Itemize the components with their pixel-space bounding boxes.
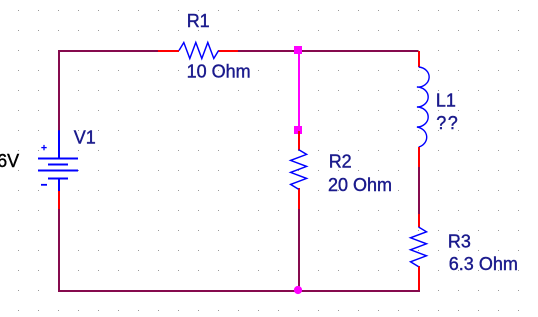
wire: [58, 50, 159, 52]
wire: [58, 50, 60, 131]
svg-text:L1: L1: [436, 90, 456, 110]
battery V1: [38, 130, 78, 209]
resistor R2: [291, 131, 307, 209]
svg-text:6V: 6V: [0, 151, 19, 171]
wire: [58, 209, 60, 292]
svg-text:6.3 Ohm: 6.3 Ohm: [449, 254, 518, 274]
svg-text:R3: R3: [448, 231, 471, 251]
inductor L1: [417, 51, 429, 167]
wire: [237, 50, 418, 52]
svg-text:20 Ohm: 20 Ohm: [328, 175, 392, 195]
svg-text:R1: R1: [187, 11, 210, 31]
svg-text:10 Ohm: 10 Ohm: [187, 62, 251, 82]
junction square bottom: [294, 126, 302, 134]
wire: [58, 290, 420, 292]
junction dot: [294, 286, 302, 294]
svg-text:R2: R2: [329, 151, 352, 171]
resistor R1: [158, 43, 238, 59]
svg-text:V1: V1: [74, 127, 96, 147]
resistor R3: [411, 214, 427, 290]
wire: [298, 209, 300, 292]
wire: [418, 166, 420, 215]
svg-text:??: ??: [436, 113, 459, 133]
junction square top: [294, 46, 302, 54]
wire selected: [298, 54, 300, 126]
